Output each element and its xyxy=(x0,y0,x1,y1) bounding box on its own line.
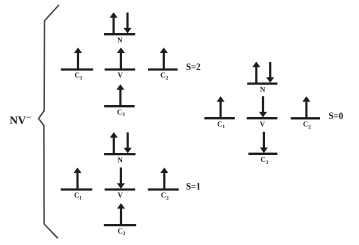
svg-text:S=1: S=1 xyxy=(186,181,201,191)
svg-text:C1: C1 xyxy=(74,192,82,202)
svg-text:N: N xyxy=(260,86,266,94)
svg-text:S=2: S=2 xyxy=(186,62,201,72)
svg-text:C2: C2 xyxy=(303,121,311,131)
svg-text:C3: C3 xyxy=(261,156,269,166)
svg-text:V: V xyxy=(118,72,124,80)
svg-text:C2: C2 xyxy=(161,192,169,202)
svg-text:N: N xyxy=(117,36,123,44)
svg-text:V: V xyxy=(118,192,124,200)
svg-text:NV−: NV− xyxy=(10,112,32,127)
svg-text:C3: C3 xyxy=(118,227,126,237)
svg-text:V: V xyxy=(260,120,266,128)
svg-text:C2: C2 xyxy=(160,72,168,82)
svg-text:C1: C1 xyxy=(217,120,225,130)
svg-text:C1: C1 xyxy=(75,72,83,82)
svg-text:C3: C3 xyxy=(117,108,125,118)
svg-text:N: N xyxy=(117,156,123,164)
svg-text:S=0: S=0 xyxy=(329,111,344,121)
